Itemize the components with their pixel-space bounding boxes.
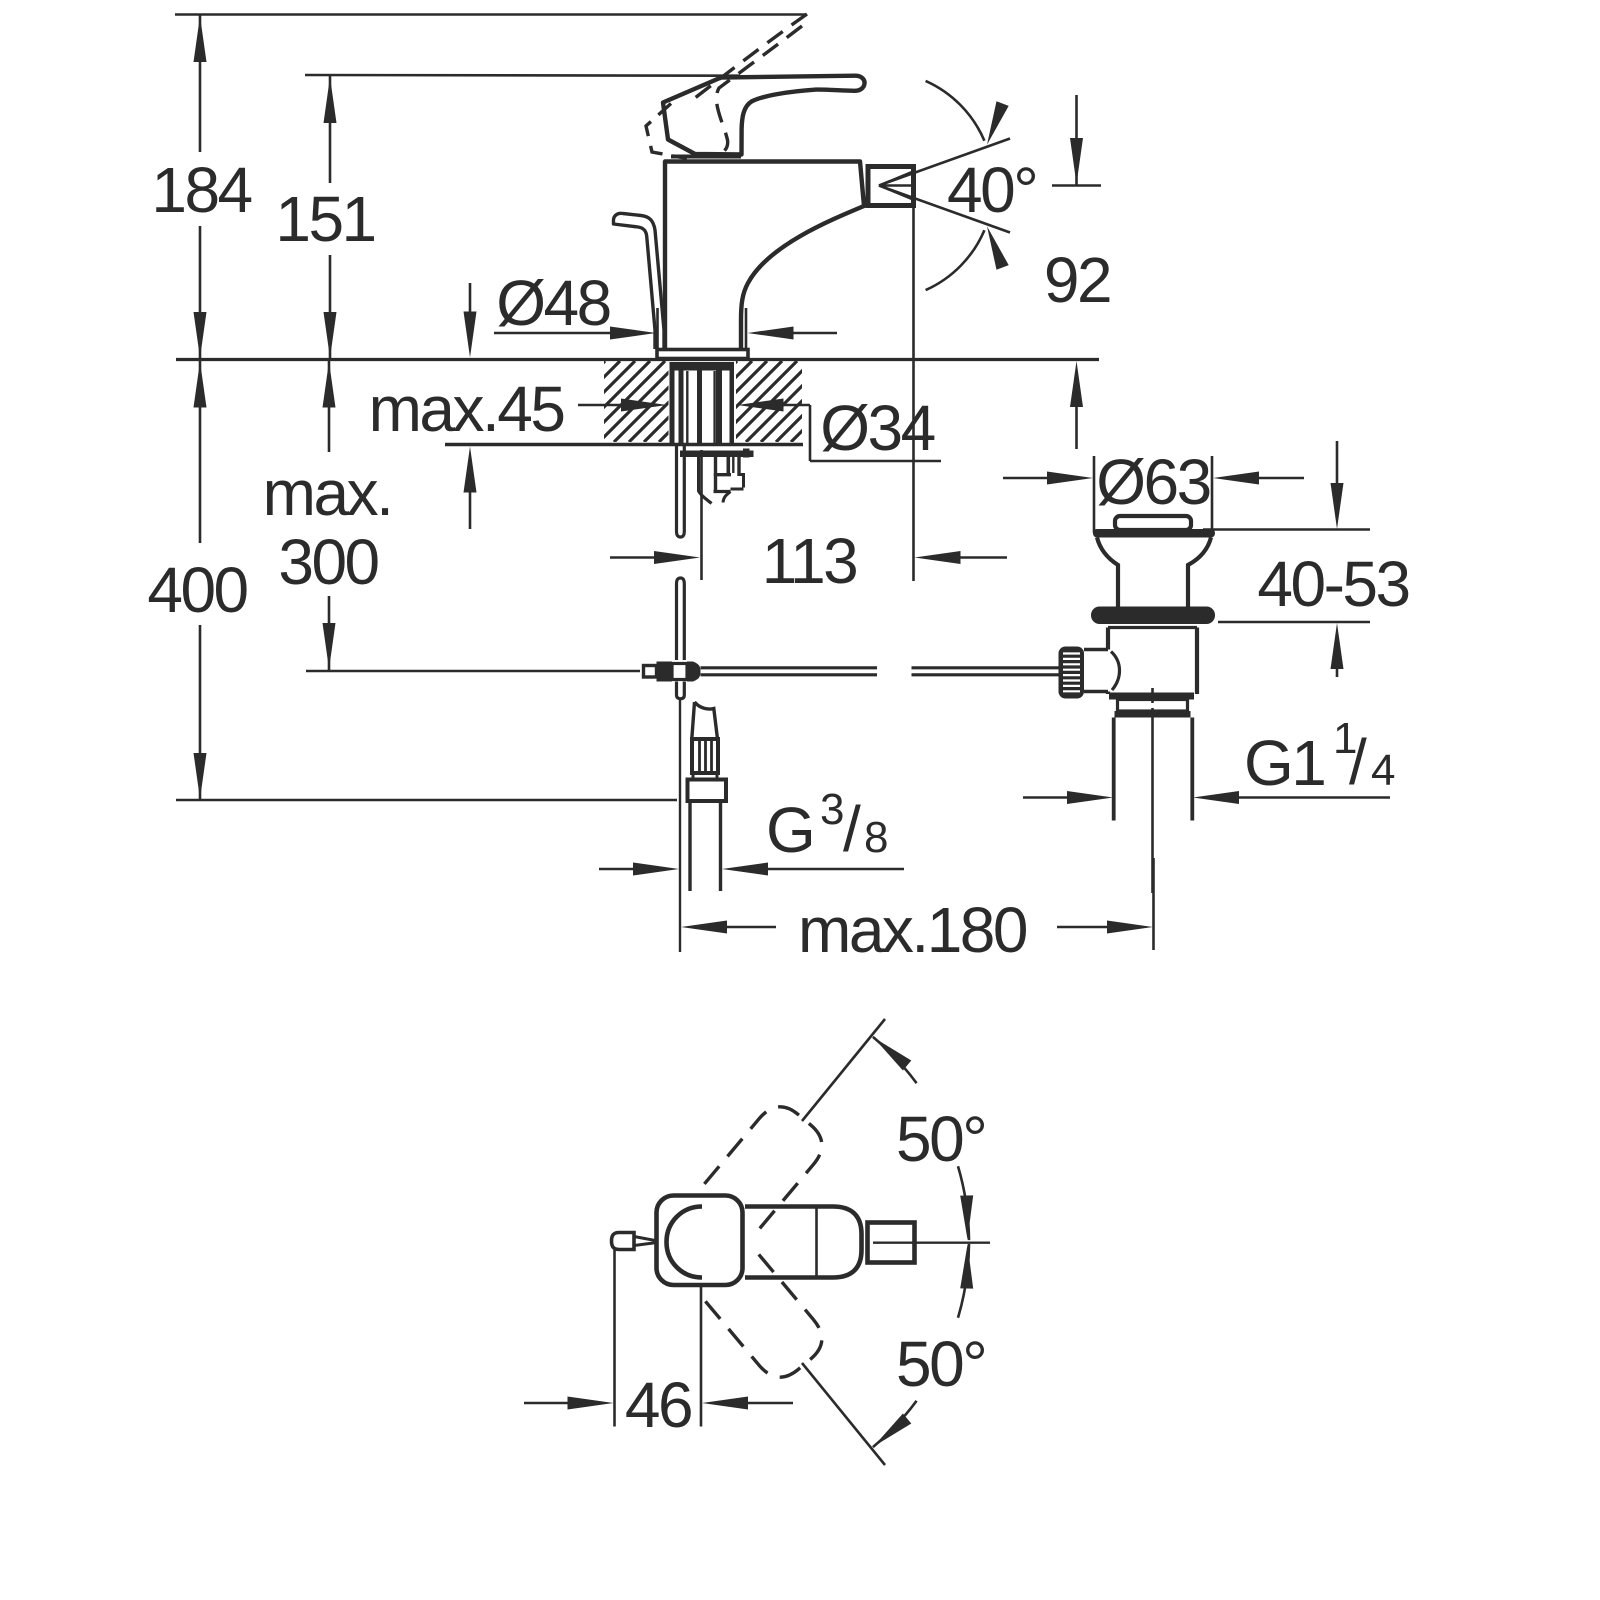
extension line faucet spout centre	[700, 450, 703, 580]
dimension max.180	[681, 858, 1154, 966]
handle lever (solid)	[663, 76, 865, 155]
drain valve tailpipe	[1114, 718, 1193, 821]
top view handle raised +50 (dashed)	[704, 1097, 831, 1230]
mounting washer and nut	[679, 447, 754, 503]
top view body	[657, 1196, 743, 1286]
svg-text:151: 151	[275, 183, 374, 255]
pop-up rod below deck	[677, 446, 685, 660]
svg-text:Ø63: Ø63	[1096, 446, 1209, 518]
deck hatching	[524, 361, 887, 442]
deck bottom line	[445, 443, 803, 447]
dimension 92	[1044, 95, 1110, 449]
svg-text:max.: max.	[263, 457, 392, 529]
top view centreline	[873, 1241, 990, 1243]
dimension max.300	[263, 360, 640, 671]
handle lever raised (dashed)	[646, 14, 807, 159]
top view pop-up rod	[612, 1233, 658, 1250]
horizontal linkage rod	[701, 668, 1060, 675]
dimension Ø48	[494, 267, 837, 349]
drain valve trumpet neck	[1097, 538, 1211, 609]
dimension 151	[275, 75, 374, 360]
dimension Ø63	[1003, 446, 1304, 533]
svg-text:3: 3	[820, 785, 843, 834]
svg-text:40-53: 40-53	[1257, 548, 1408, 620]
top view handle (solid)	[667, 1207, 862, 1278]
drain valve side outlet	[1084, 650, 1120, 692]
svg-text:Ø48: Ø48	[496, 267, 609, 339]
supply hose upper stub	[699, 457, 712, 504]
dimension 46	[524, 1250, 793, 1441]
dimension G3/8	[599, 785, 904, 876]
angle 50 deg upper	[802, 1019, 985, 1240]
svg-text:max.180: max.180	[798, 894, 1027, 966]
drain valve top flange	[1093, 529, 1215, 538]
faucet base plate	[657, 350, 748, 359]
dimension max.45	[369, 283, 564, 529]
angle 50 deg lower	[802, 1244, 985, 1465]
drain valve body	[1108, 628, 1197, 718]
faucet body outline	[665, 162, 864, 351]
svg-text:G: G	[766, 794, 813, 866]
drain valve push cap	[1115, 516, 1191, 530]
dimension 113	[610, 525, 1007, 597]
svg-text:46: 46	[625, 1369, 691, 1441]
top view aerator	[868, 1223, 915, 1263]
extension line, raised-lever top level	[175, 13, 806, 16]
supply hose and G3/8 connector	[688, 702, 727, 891]
svg-text:4: 4	[1371, 746, 1395, 795]
handle base cap	[671, 155, 741, 159]
extension line, closed-lever top level	[305, 74, 740, 77]
svg-text:50°: 50°	[896, 1103, 985, 1175]
dimension G1 1/4	[1023, 714, 1395, 804]
drain valve knurled knob	[1059, 647, 1085, 699]
drain valve centreline	[1151, 688, 1154, 893]
aerator outlet	[868, 167, 914, 206]
dimension Ø34	[578, 392, 941, 464]
svg-text:300: 300	[278, 526, 378, 598]
svg-text:max.45: max.45	[369, 373, 564, 445]
drain valve seal ring	[1091, 607, 1215, 625]
countertop deck top line	[176, 358, 1099, 361]
extension line spout tip	[912, 207, 915, 581]
pop-up rod (above deck)	[613, 213, 664, 349]
pop-up rod coupling	[644, 662, 701, 699]
svg-text:50°: 50°	[896, 1328, 985, 1400]
svg-text:92: 92	[1044, 244, 1110, 316]
dimension 40-53	[1203, 441, 1409, 677]
top view handle raised -50 (dashed)	[704, 1254, 831, 1387]
svg-text:184: 184	[151, 154, 251, 226]
svg-text:G1: G1	[1244, 727, 1324, 799]
svg-text:40°: 40°	[947, 154, 1036, 226]
dimension 184 (vertical line with arrows)	[151, 15, 251, 360]
spray angle 40 deg	[879, 81, 1036, 290]
extension line supply left	[679, 698, 681, 952]
threaded shank	[670, 362, 735, 444]
svg-text:8: 8	[864, 813, 887, 862]
svg-text:113: 113	[762, 525, 857, 597]
svg-text:Ø34: Ø34	[820, 392, 934, 464]
dimension 400	[147, 360, 677, 800]
svg-text:400: 400	[147, 554, 247, 626]
